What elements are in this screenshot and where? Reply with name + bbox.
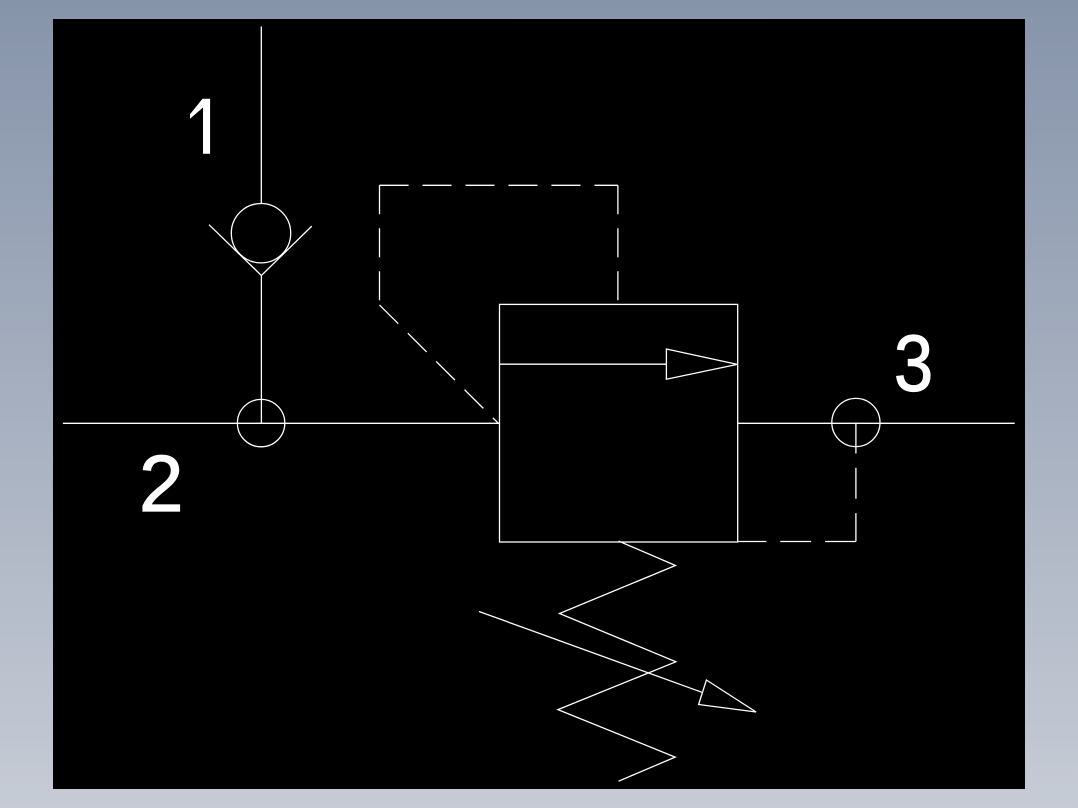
- pilot line dashed: left vertical: [379, 185, 381, 305]
- svg-text:2: 2: [139, 439, 184, 528]
- check valve V1 seat: [209, 225, 312, 276]
- label port 1: [190, 99, 210, 154]
- valve body U1 square: [500, 304, 738, 542]
- adjustment arrow shaft: [479, 612, 702, 693]
- check valve V1 ball: [231, 204, 290, 263]
- node 2 junction circle: [237, 399, 284, 446]
- wire: check valve to node 2: [260, 276, 262, 424]
- node 3 junction circle: [832, 398, 880, 446]
- svg-text:3: 3: [894, 318, 933, 407]
- drain line dashed: vertical from node 3: [855, 423, 857, 542]
- pilot line dashed: top horizontal: [380, 184, 618, 186]
- adjustment arrow head: [699, 680, 757, 712]
- wire: port 1 vertical line: [260, 27, 262, 204]
- drain line dashed: horizontal to valve body corner: [738, 541, 856, 543]
- pilot line dashed: right vertical: [617, 185, 619, 304]
- pilot line dashed: diagonal to valve inlet: [380, 305, 499, 423]
- flow path line inside valve: [500, 363, 667, 365]
- spring (adjustable): [558, 541, 676, 781]
- wire: main line left (port 2 to valve body): [63, 422, 500, 424]
- flow direction arrow: [666, 349, 737, 379]
- wire: main line right (valve body to port 3): [738, 422, 1015, 424]
